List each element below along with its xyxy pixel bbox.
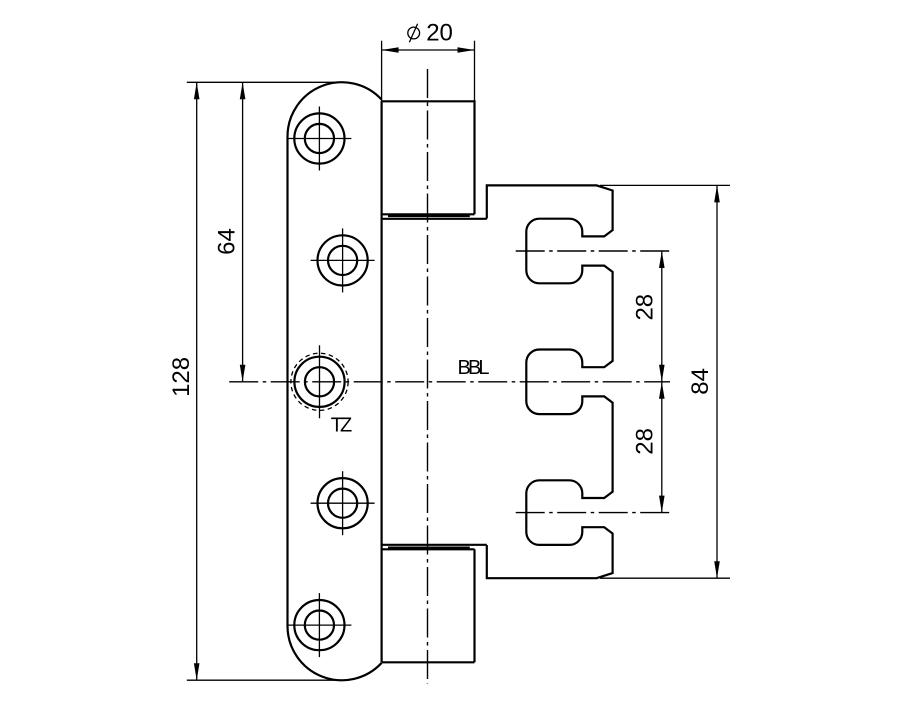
svg-text:20: 20	[426, 19, 453, 46]
svg-text:28: 28	[632, 428, 659, 455]
svg-text:28: 28	[632, 294, 659, 321]
dimension 64 line	[242, 82, 244, 382]
svg-text:128: 128	[168, 357, 195, 397]
svg-text:64: 64	[214, 228, 241, 255]
dimension 28 top line	[661, 251, 663, 513]
slot 3 centerline	[516, 512, 671, 514]
dimension 84 extension lines	[600, 184, 730, 186]
leaf plate right edge / knuckle edge	[381, 101, 383, 662]
top knuckle rim	[388, 215, 470, 217]
dimension 128 extension lines	[187, 81, 343, 83]
dimension 128 line	[196, 82, 198, 680]
dimension D20 text	[408, 19, 453, 46]
hole 4	[311, 471, 375, 535]
top knuckle	[382, 101, 475, 214]
frame part bottom step	[382, 544, 487, 546]
leaf plate outline	[287, 82, 381, 680]
bottom knuckle	[382, 549, 475, 662]
dimension D20 line	[382, 49, 475, 51]
BBL centerline	[229, 381, 670, 383]
barrel centerline	[427, 69, 429, 684]
dimension D20 extension lines	[381, 41, 383, 102]
slot 1 centerline	[516, 250, 671, 252]
hole 1	[287, 107, 351, 171]
frame part top step	[382, 218, 487, 220]
frame receiver comb outline	[487, 185, 613, 578]
svg-text:TZ: TZ	[331, 414, 353, 436]
hole 3 TZ hole	[291, 345, 348, 418]
dimension 84 line	[716, 185, 718, 578]
bottom knuckle rim	[388, 546, 470, 548]
svg-text:84: 84	[687, 368, 714, 395]
hole 2	[311, 228, 375, 292]
hole 5	[287, 593, 351, 657]
svg-text:BBL: BBL	[458, 357, 490, 379]
